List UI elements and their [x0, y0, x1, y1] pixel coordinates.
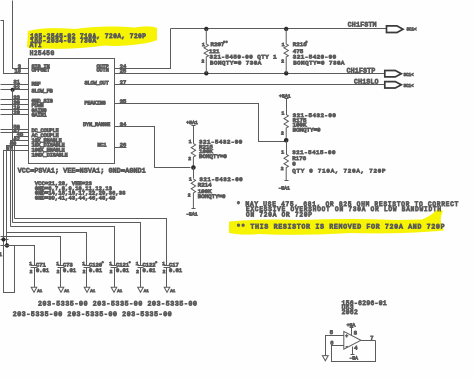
svg-text:2: 2	[281, 59, 284, 65]
junction node R215/R214	[191, 165, 196, 170]
highlight band note	[229, 209, 444, 235]
pin number 45	[17, 132, 23, 138]
wire pin 20 GAIN1	[1, 114, 29, 116]
svg-text:34: 34	[120, 122, 126, 128]
svg-text:A1: A1	[144, 290, 149, 294]
ground C122	[138, 287, 150, 294]
wire top rail CH1FSTM	[171, 28, 387, 30]
svg-text:35: 35	[120, 99, 126, 105]
svg-text:GAIN1: GAIN1	[32, 113, 47, 119]
resistor R207	[202, 29, 278, 73]
svg-text:1: 1	[282, 111, 285, 117]
pin number 31	[13, 80, 19, 86]
pin number 35	[120, 99, 126, 105]
wire C120 feed	[7, 233, 87, 266]
svg-text:*: *	[102, 261, 104, 266]
wire C121 feed	[11, 227, 115, 266]
svg-text:VCC=PSVA1; VEE=NSVA1; GND=AGND: VCC=PSVA1; VEE=NSVA1; GND=AGND1	[18, 167, 146, 174]
off-page connector CH1FSTP	[347, 67, 414, 77]
svg-text:26: 26	[120, 143, 126, 149]
svg-text:4: 4	[354, 346, 357, 352]
capacitor C71	[29, 261, 49, 288]
svg-text:7: 7	[370, 336, 373, 342]
capacitor C122	[136, 261, 158, 288]
svg-text:2: 2	[188, 192, 191, 198]
wire pin 27 SLOW_OUT rail CH1SLO	[115, 84, 385, 86]
wire pin 37 100X_DISABLE down left	[4, 151, 29, 293]
junction node SLOW_FB	[11, 88, 15, 92]
pin number 37	[6, 146, 12, 152]
supply -5A1 for R176	[278, 181, 290, 192]
svg-text:A1: A1	[117, 290, 122, 294]
pin number 20	[13, 110, 19, 116]
svg-text:1: 1	[136, 261, 139, 267]
svg-text:3C1<: 3C1<	[404, 84, 415, 89]
op-amp U53 value labels	[342, 300, 387, 316]
junction node R216 bottom	[284, 71, 288, 75]
pin number 7	[370, 336, 373, 342]
pin number 25	[120, 69, 126, 75]
svg-text:-5A1: -5A1	[186, 211, 198, 217]
svg-text:1: 1	[29, 261, 32, 267]
wire pin 45 10X_ENABLE down to C17 feed	[15, 137, 29, 219]
note text asterisk	[237, 201, 460, 218]
svg-text:DYN_RANGE: DYN_RANGE	[83, 122, 110, 128]
capacitor C17	[162, 261, 182, 288]
svg-text:0.01: 0.01	[169, 268, 182, 274]
off-page connector CH1SLO	[354, 78, 414, 88]
wire pin 50 DC_COUPLE	[1, 129, 29, 131]
wire pin 24 OUTP up to top rail	[115, 29, 171, 69]
supply -5A1 for R214	[186, 209, 198, 218]
svg-text:-: -	[345, 345, 348, 350]
svg-text:PEAKING: PEAKING	[84, 101, 105, 107]
svg-text:1: 1	[189, 139, 192, 145]
wire op-amp pin 5 input	[326, 336, 344, 356]
svg-text:0.01: 0.01	[89, 268, 102, 274]
resistor R176	[281, 141, 387, 181]
wire pin 19 GAIN0	[1, 109, 29, 111]
wire pin 31 REF	[1, 84, 29, 86]
svg-text:1: 1	[56, 261, 59, 267]
ground C71	[31, 287, 43, 294]
highlight band part numbers	[27, 26, 157, 49]
value label supply assignments	[18, 167, 146, 201]
svg-text:BOMQTY=0: BOMQTY=0	[198, 193, 226, 200]
svg-text:0.01: 0.01	[143, 268, 156, 274]
svg-text:CH1FSTP: CH1FSTP	[347, 67, 376, 74]
IC right pin labels	[83, 64, 110, 148]
junction node C71 feed	[5, 243, 9, 247]
wire pin 47 AC_COUPLE	[1, 132, 29, 134]
svg-text:CH1SLO: CH1SLO	[354, 78, 379, 85]
ground C17	[164, 287, 176, 294]
wire SLOW_FB vertical to cap bundle	[12, 90, 14, 223]
pin number 30	[13, 100, 19, 106]
wire op-amp output pin 7	[361, 340, 376, 342]
wire pin 42 10X_DISABLE down to C121 feed	[11, 141, 29, 227]
svg-text:2: 2	[110, 269, 113, 275]
supply +5A1 for R175	[279, 94, 291, 100]
svg-text:BOMQTY=0 730A: BOMQTY=0 730A	[210, 59, 262, 66]
capacitor C73	[56, 261, 76, 288]
svg-text:1: 1	[109, 261, 112, 267]
svg-text:CH1FSTM: CH1FSTM	[348, 22, 377, 29]
wire pin 32 SLOW_FB	[1, 89, 29, 91]
wire pin 35 PEAKING to R175/R176 node	[115, 104, 285, 142]
svg-text:ON 720A OR 720P: ON 720A OR 720P	[246, 211, 313, 218]
wire pin 30 PDWN	[1, 104, 29, 106]
svg-text:A1: A1	[64, 290, 69, 294]
svg-text:*: *	[305, 42, 308, 47]
junction node R207 top	[204, 27, 208, 31]
junction node R207 bottom	[204, 71, 208, 75]
svg-text:**: **	[223, 42, 228, 47]
svg-text:2062: 2062	[342, 309, 359, 316]
wire C73 feed	[1, 237, 61, 266]
supply +5A1 for R215	[186, 120, 198, 126]
svg-text:BOMQTY=0: BOMQTY=0	[199, 153, 227, 160]
pin number 26	[120, 143, 126, 149]
svg-text:3C1<: 3C1<	[407, 27, 418, 32]
svg-text:SLOW_OUT: SLOW_OUT	[84, 80, 108, 86]
note text double asterisk highlighted	[237, 223, 446, 230]
svg-text:1: 1	[82, 261, 85, 267]
svg-text:-5A: -5A	[349, 355, 358, 361]
wire pin 18 OFFSET from left edge	[1, 21, 29, 74]
wire pin 34 DYN_RANGE to R215/R214 node	[115, 127, 191, 168]
svg-text:2: 2	[188, 156, 191, 162]
svg-text:27: 27	[120, 80, 126, 86]
wire pin 25 OUTM rail CH1FSTP	[115, 73, 385, 75]
svg-text:1: 1	[282, 42, 285, 48]
junction node R216 top	[284, 27, 288, 31]
junction node R175/R176	[284, 138, 289, 143]
svg-text:1: 1	[162, 261, 165, 267]
capacitor C120	[82, 261, 104, 288]
svg-text:QTY 0 710A, 720A, 720P: QTY 0 710A, 720A, 720P	[292, 168, 386, 175]
svg-text:2: 2	[57, 269, 60, 275]
resistor R214	[188, 168, 243, 210]
svg-text:18: 18	[14, 69, 20, 75]
pin number 18	[14, 69, 20, 75]
pin number 6	[330, 341, 333, 347]
svg-text:+: +	[345, 335, 348, 340]
ground C121	[111, 287, 123, 294]
wire C71 feed	[1, 246, 35, 266]
svg-text:1: 1	[202, 42, 205, 48]
value label part numbers top	[30, 33, 147, 57]
svg-text:A1: A1	[170, 290, 175, 294]
svg-text:2: 2	[202, 59, 205, 65]
ground C120	[84, 287, 96, 294]
svg-text:0.01: 0.01	[116, 268, 129, 274]
svg-text:2: 2	[83, 269, 86, 275]
wire pin 3 SIG_IN from top edge	[13, 1, 29, 69]
value label board part numbers bottom	[13, 301, 198, 318]
svg-text:*: *	[129, 261, 131, 266]
svg-text:0: 0	[292, 160, 296, 167]
wire stub left edge	[1, 239, 9, 241]
pin number 32	[13, 85, 19, 91]
wire op-amp pin 6 input feedback loop	[332, 341, 376, 362]
svg-text:1: 1	[281, 150, 284, 156]
resistor R215	[188, 126, 243, 168]
supply -5A op-amp	[349, 355, 358, 362]
svg-text:3C1<: 3C1<	[404, 73, 415, 78]
pin number 19	[13, 105, 19, 111]
node label fragment left edge	[0, 252, 2, 258]
svg-text:BOMQTY=0: BOMQTY=0	[293, 126, 321, 133]
svg-text:*: *	[155, 261, 157, 266]
svg-text:2: 2	[163, 269, 166, 275]
junction node at 100X wire	[2, 238, 6, 242]
svg-text:25: 25	[120, 69, 126, 75]
svg-text:-5A1: -5A1	[278, 185, 290, 191]
pin number 5	[330, 330, 333, 336]
wire pin 33 GND_SIG	[1, 99, 29, 101]
svg-text:REF: REF	[32, 82, 41, 88]
svg-text:GND=39,41,43,44,46,48,49: GND=39,41,43,44,46,48,49	[35, 196, 116, 202]
IC H2545G attenuator box	[29, 59, 115, 164]
svg-text:1: 1	[189, 177, 192, 183]
svg-text:0.01: 0.01	[63, 268, 76, 274]
svg-text:0.01: 0.01	[36, 268, 49, 274]
svg-text:2: 2	[136, 269, 139, 275]
svg-text:ATI: ATI	[30, 42, 42, 49]
svg-text:8: 8	[354, 330, 357, 336]
svg-text:1: 1	[0, 252, 2, 258]
pin number 3	[18, 64, 21, 70]
svg-text:6: 6	[330, 341, 333, 347]
svg-text:37: 37	[6, 146, 12, 152]
svg-text:SLOW_FB: SLOW_FB	[32, 88, 53, 94]
wire C122 feed	[13, 223, 141, 266]
capacitor C121	[109, 261, 131, 288]
svg-text:5: 5	[330, 330, 333, 336]
svg-text:A1: A1	[37, 290, 42, 294]
svg-text:100X_DISABLE: 100X_DISABLE	[32, 152, 68, 158]
IC left pin labels	[32, 64, 68, 158]
pin number 50	[13, 125, 19, 131]
svg-text:OUTM: OUTM	[97, 68, 109, 74]
resistor R216	[281, 29, 345, 73]
supply +5A op-amp	[347, 323, 356, 329]
op-amp U53	[344, 328, 361, 355]
pin number 47	[13, 128, 19, 134]
svg-text:20: 20	[13, 110, 19, 116]
svg-text:2: 2	[281, 166, 284, 172]
resistor R175	[281, 99, 336, 141]
svg-text:2: 2	[30, 269, 33, 275]
pin number 33	[13, 95, 19, 101]
pin number 24	[120, 64, 126, 70]
svg-text:OFFSET: OFFSET	[32, 68, 50, 74]
svg-text:H2545G: H2545G	[30, 50, 55, 57]
ground C73	[58, 287, 70, 294]
pin number 40	[10, 141, 16, 147]
ground op-amp pin 5	[322, 356, 328, 361]
svg-text:32: 32	[13, 85, 19, 91]
svg-text:BOMQTY=0 730A: BOMQTY=0 730A	[293, 59, 345, 66]
pin number 34	[120, 122, 126, 128]
svg-text:A1: A1	[90, 290, 95, 294]
pin number 27	[120, 80, 126, 86]
wire pin 26 NC1 stub	[115, 147, 127, 149]
svg-text:203-5335-00 203-5335-00 203-53: 203-5335-00 203-5335-00 203-5335-00	[13, 311, 173, 318]
svg-text:2: 2	[281, 131, 284, 137]
svg-text:203-5335-00 203-5335-00 203-53: 203-5335-00 203-5335-00 203-5335-00	[38, 301, 198, 308]
wire C17 feed	[15, 219, 167, 266]
off-page connector CH1FSTM	[348, 22, 417, 33]
svg-text:NC1: NC1	[97, 142, 106, 148]
svg-text:** THIS RESISTOR IS REMOVED FO: ** THIS RESISTOR IS REMOVED FOR 720A AND…	[237, 223, 446, 230]
wire pin 40 100X_ENABLE down to C71 feed	[7, 146, 29, 246]
pin number 42	[13, 136, 19, 142]
